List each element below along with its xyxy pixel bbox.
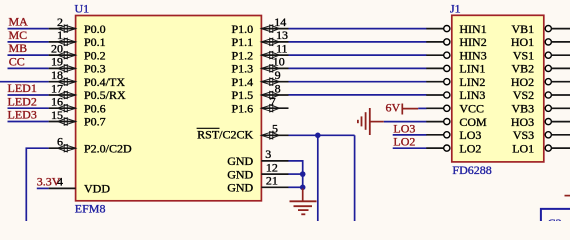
svg-text:9: 9 [275,68,281,82]
svg-text:VB2: VB2 [512,62,535,76]
svg-text:LED3: LED3 [8,108,37,122]
wire GND pin3 [288,161,302,190]
pin HO2 (J1 right) [511,75,570,89]
wire RST vertical 2 [354,135,356,221]
connector J1 body [452,15,544,162]
wire [8,121,49,123]
svg-text:13: 13 [276,28,288,42]
pin 11 P1.2 [232,41,289,62]
wire GND pin12 [288,173,302,175]
wire [8,107,49,109]
pin HIN3 (J1 left) [426,48,486,62]
pin VS2 (J1 right) [513,88,570,102]
wire [418,107,426,109]
wire [289,67,427,69]
pin HO1 (J1 right) [511,35,570,49]
svg-text:CC: CC [9,55,25,69]
pin 21 GND [227,174,288,195]
svg-text:HIN2: HIN2 [459,35,486,49]
svg-text:LO2: LO2 [393,135,415,149]
power line (clipped, right edge) [565,195,570,197]
wire (pin 18, runs off left edge) [0,81,49,83]
svg-text:6V: 6V [386,100,401,114]
svg-text:10: 10 [273,55,285,69]
pin 18 P0.4/TX [49,68,126,89]
pin VCC (J1 left) [426,102,484,116]
pin 10 P1.3 [232,55,289,76]
svg-text:18: 18 [51,68,63,82]
svg-text:16: 16 [51,95,63,109]
wire [289,94,427,96]
svg-text:17: 17 [51,81,63,95]
pin 5 RST/C2CK [197,122,289,142]
svg-text:J1: J1 [450,1,461,15]
svg-text:P1.6: P1.6 [232,101,254,115]
pin 17 P0.5/RX [49,81,126,102]
svg-text:VDD: VDD [84,182,110,196]
wire RST vertical 1 [317,135,319,221]
svg-text:P0.5/RX: P0.5/RX [84,88,126,102]
wire RST net horizontal [289,134,355,136]
svg-text:HO2: HO2 [511,75,534,89]
svg-text:LIN3: LIN3 [459,88,485,102]
wire [289,28,427,30]
svg-text:MC: MC [9,28,28,42]
svg-text:2: 2 [57,15,63,29]
svg-text:VS1: VS1 [513,48,534,62]
svg-text:EFM8: EFM8 [75,202,106,216]
wire [8,28,49,30]
svg-text:P1.3: P1.3 [232,62,254,76]
wire [393,147,427,149]
junction [300,185,306,191]
svg-text:U1: U1 [75,2,90,16]
pin LO2 (J1 left) [426,141,481,155]
svg-text:P0.4/TX: P0.4/TX [84,75,125,89]
svg-text:MB: MB [9,41,28,55]
svg-text:VS3: VS3 [513,128,534,142]
svg-text:P0.6: P0.6 [84,101,106,115]
svg-text:FD6288: FD6288 [452,163,491,177]
wire [289,81,427,83]
pin HIN1 (J1 left) [426,22,486,36]
svg-text:15: 15 [51,108,63,122]
pin VB2 (J1 right) [512,62,570,76]
svg-text:5: 5 [272,122,278,136]
pin 2 P0.0 [49,15,106,36]
svg-text:C2: C2 [548,216,562,221]
pin 16 P0.6 [49,95,106,116]
pin 3 GND [227,147,288,168]
pin 4 VDD [49,175,111,196]
wire P2.0/C2D [26,148,48,221]
pin 20 P0.2 [49,41,106,62]
svg-text:7: 7 [270,95,276,109]
svg-text:8: 8 [275,81,281,95]
pin VS3 (J1 right) [513,128,570,142]
svg-text:P1.1: P1.1 [232,35,254,49]
wire [8,54,49,56]
svg-text:P1.2: P1.2 [232,48,254,62]
wire [8,67,49,69]
svg-text:21: 21 [266,174,278,188]
svg-text:LIN2: LIN2 [459,75,485,89]
pin VB3 (J1 right) [512,102,570,116]
pin VB1 (J1 right) [512,22,570,36]
pin 6 P2.0/C2D [49,135,132,156]
svg-text:P1.5: P1.5 [232,88,254,102]
ground (COM, rotated) [358,108,384,135]
pin VS1 (J1 right) [513,48,570,62]
wire [384,121,427,123]
svg-text:LED2: LED2 [8,94,37,108]
wire [393,134,427,136]
svg-text:RST/C2CK: RST/C2CK [197,128,253,142]
svg-text:LO3: LO3 [393,121,415,135]
ground [290,189,317,215]
svg-text:COM: COM [459,115,487,129]
pin 1 P0.1 [49,28,106,49]
pin COM (J1 left) [426,115,487,129]
pin LO1 (J1 right) [512,141,570,155]
pin 19 P0.3 [49,55,106,76]
svg-text:P1.4: P1.4 [232,75,254,89]
svg-text:P2.0/C2D: P2.0/C2D [84,141,132,155]
part C2 (clipped, bottom right) [541,209,570,230]
svg-text:MA: MA [9,15,29,29]
pin 7 P1.6 [232,95,289,116]
svg-text:HIN3: HIN3 [459,48,486,62]
svg-text:11: 11 [276,41,288,55]
svg-text:LO2: LO2 [459,141,481,155]
svg-text:P0.2: P0.2 [84,48,106,62]
svg-text:HIN1: HIN1 [459,22,486,36]
svg-text:LIN1: LIN1 [459,62,485,76]
svg-text:VB3: VB3 [512,102,535,116]
pin LIN1 (J1 left) [426,62,485,76]
svg-text:GND: GND [227,181,253,195]
pin LIN3 (J1 left) [426,88,485,102]
wire [8,41,49,43]
svg-text:VB1: VB1 [512,22,535,36]
pin HIN2 (J1 left) [426,35,486,49]
pin HO3 (J1 right) [511,115,570,129]
svg-text:VS2: VS2 [513,88,534,102]
svg-text:LO3: LO3 [459,128,481,142]
svg-text:3.3V: 3.3V [37,175,61,189]
wire GND pin21 [288,186,302,188]
svg-text:P0.0: P0.0 [84,22,106,36]
svg-text:3: 3 [265,147,271,161]
wire [8,94,49,96]
pin 9 P1.4 [232,68,289,89]
IC U1 body [76,16,262,201]
svg-text:20: 20 [51,41,63,55]
svg-text:HO1: HO1 [511,35,534,49]
svg-text:GND: GND [227,167,253,181]
svg-text:19: 19 [51,55,63,69]
svg-text:6: 6 [57,135,63,149]
pin LIN2 (J1 left) [426,75,485,89]
pin 8 P1.5 [232,81,289,102]
junction [315,133,321,139]
svg-text:P1.0: P1.0 [232,22,254,36]
svg-text:12: 12 [266,160,278,174]
svg-text:GND: GND [227,154,253,168]
svg-text:1: 1 [57,28,63,42]
pin 14 P1.0 [232,15,289,36]
pin LO3 (J1 left) [426,128,481,142]
junction [300,171,306,177]
pin 13 P1.1 [232,28,289,49]
svg-text:LED1: LED1 [8,81,37,95]
pin 12 GND [227,160,288,181]
svg-text:VCC: VCC [459,102,484,116]
svg-text:P0.1: P0.1 [84,35,106,49]
power 6V [386,100,419,114]
svg-text:14: 14 [274,15,286,29]
svg-text:P0.3: P0.3 [84,62,106,76]
svg-text:HO3: HO3 [511,115,534,129]
svg-text:LO1: LO1 [512,141,534,155]
wire [289,54,427,56]
pin 15 P0.7 [49,108,106,129]
wire [289,41,427,43]
wire [37,187,49,189]
svg-text:P0.7: P0.7 [84,115,106,129]
